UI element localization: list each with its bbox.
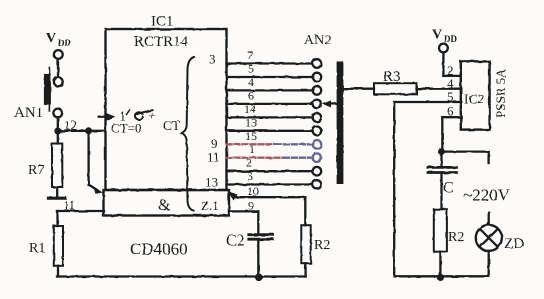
op IC2 box <box>461 61 490 129</box>
svg-text:R2: R2 <box>314 238 330 253</box>
wire node down to &-gate input <box>87 131 89 185</box>
wire IC2 pin 5 to bottom rail <box>394 102 461 276</box>
svg-text:ZD: ZD <box>504 236 524 252</box>
output wire row 4 pin 6 <box>227 103 313 105</box>
op IC1 main box <box>106 29 227 190</box>
output wire row 8 pin 1 red dashed <box>227 157 313 159</box>
terminal bar below R7 <box>49 197 66 200</box>
svg-text:14: 14 <box>244 102 256 116</box>
svg-text:9: 9 <box>248 199 254 213</box>
selector AN2 common bar <box>337 62 344 185</box>
wire bottom rail (left) <box>57 275 306 277</box>
terminal circle VDD left <box>54 50 63 59</box>
svg-text:AN2: AN2 <box>304 33 331 48</box>
junction dot bottom rail <box>255 274 263 282</box>
output wire row 2 pin 5 <box>227 76 313 78</box>
wire to mains stub <box>442 152 489 163</box>
output wire row 5 pin 14 <box>227 116 313 118</box>
wire node to IC1 pin 12 <box>58 130 106 132</box>
svg-text:AN1: AN1 <box>14 105 43 121</box>
svg-text:R1: R1 <box>29 241 45 256</box>
svg-text:CT=0: CT=0 <box>111 121 141 136</box>
svg-text:CD4060: CD4060 <box>130 240 188 259</box>
output wire row 3 pin 4 <box>227 89 313 91</box>
wire AN1 to node <box>57 117 59 131</box>
wire pin 9 from gate <box>229 211 258 233</box>
wire bottom rail (right) <box>394 275 489 277</box>
svg-text:11: 11 <box>63 198 76 213</box>
lamp ZD <box>476 212 502 276</box>
svg-text:2: 2 <box>246 156 252 170</box>
svg-text:1: 1 <box>249 142 255 156</box>
svg-text:7: 7 <box>247 48 253 62</box>
junction dot on pin12 wire <box>85 127 92 134</box>
selector AN2 contact circles <box>313 59 322 189</box>
capacitor C <box>428 152 456 210</box>
svg-text:10: 10 <box>247 184 259 198</box>
wire pin 10 from gate <box>228 191 306 225</box>
svg-text:12: 12 <box>64 118 77 133</box>
terminal circle VDD right <box>439 44 448 53</box>
resistor R1 <box>54 226 63 277</box>
svg-text:DD: DD <box>444 34 457 44</box>
junction dot R2 bottom <box>437 274 444 281</box>
svg-text:13: 13 <box>205 175 218 190</box>
svg-text:R3: R3 <box>383 69 401 85</box>
svg-text:RCTR14: RCTR14 <box>134 34 189 50</box>
power V_DD (right) <box>432 28 457 45</box>
svg-text:15: 15 <box>245 129 257 143</box>
svg-text:11: 11 <box>207 150 220 165</box>
wire IC2 pin 6 down <box>442 117 461 151</box>
svg-text:13: 13 <box>245 115 257 129</box>
svg-text:C: C <box>443 180 454 197</box>
reset input arrow pin 12 <box>99 113 116 121</box>
svg-text:3: 3 <box>247 169 253 183</box>
svg-text:4: 4 <box>248 75 254 89</box>
wire pin 11 <box>58 211 105 226</box>
junction node pin12 <box>54 128 61 135</box>
svg-text:+: + <box>149 108 156 123</box>
svg-text:R7: R7 <box>28 163 44 178</box>
svg-text:DD: DD <box>58 38 71 48</box>
svg-text:3: 3 <box>209 52 216 67</box>
resistor R2 (right) <box>434 209 447 277</box>
svg-text:IC2: IC2 <box>464 92 484 107</box>
power V_DD (left) <box>46 31 71 48</box>
output wire row 7 pin 15 red dashed <box>227 143 313 145</box>
pushbutton AN1 <box>44 68 63 118</box>
svg-text:6: 6 <box>248 88 254 102</box>
resistor R3 <box>343 83 460 94</box>
arrow into & gate (left) <box>89 185 103 194</box>
brace <box>182 57 195 211</box>
resistor R2 (middle) <box>301 225 310 276</box>
resistor R7 <box>52 135 62 197</box>
junction dot at capacitor C top <box>438 148 445 155</box>
output wire row 1 pin 7 <box>227 62 313 64</box>
output wire row 9 pin 2 <box>227 170 313 172</box>
gate & box of IC1 <box>104 190 230 216</box>
wire VDD to IC2 pin2 <box>443 53 460 76</box>
svg-text:~220V: ~220V <box>463 186 511 205</box>
svg-text:R2: R2 <box>448 230 464 245</box>
svg-text:V: V <box>46 31 56 46</box>
svg-text:&: & <box>158 197 171 214</box>
label 1-sigma-plus <box>120 108 156 124</box>
output wire row 6 pin 13 <box>227 130 313 132</box>
wire VDD to AN1 <box>57 59 59 77</box>
capacitor C2 <box>249 235 273 277</box>
svg-text:Z.1: Z.1 <box>201 198 219 213</box>
output wire row 10 pin 3 <box>227 183 313 185</box>
svg-text:5: 5 <box>248 62 254 76</box>
svg-text:V: V <box>432 28 442 43</box>
svg-text:CT: CT <box>163 118 181 133</box>
svg-text:C2: C2 <box>226 233 245 250</box>
svg-text:PSSR 5A: PSSR 5A <box>493 68 508 118</box>
selector wiper arrow <box>322 100 336 107</box>
svg-text:IC1: IC1 <box>151 14 174 30</box>
